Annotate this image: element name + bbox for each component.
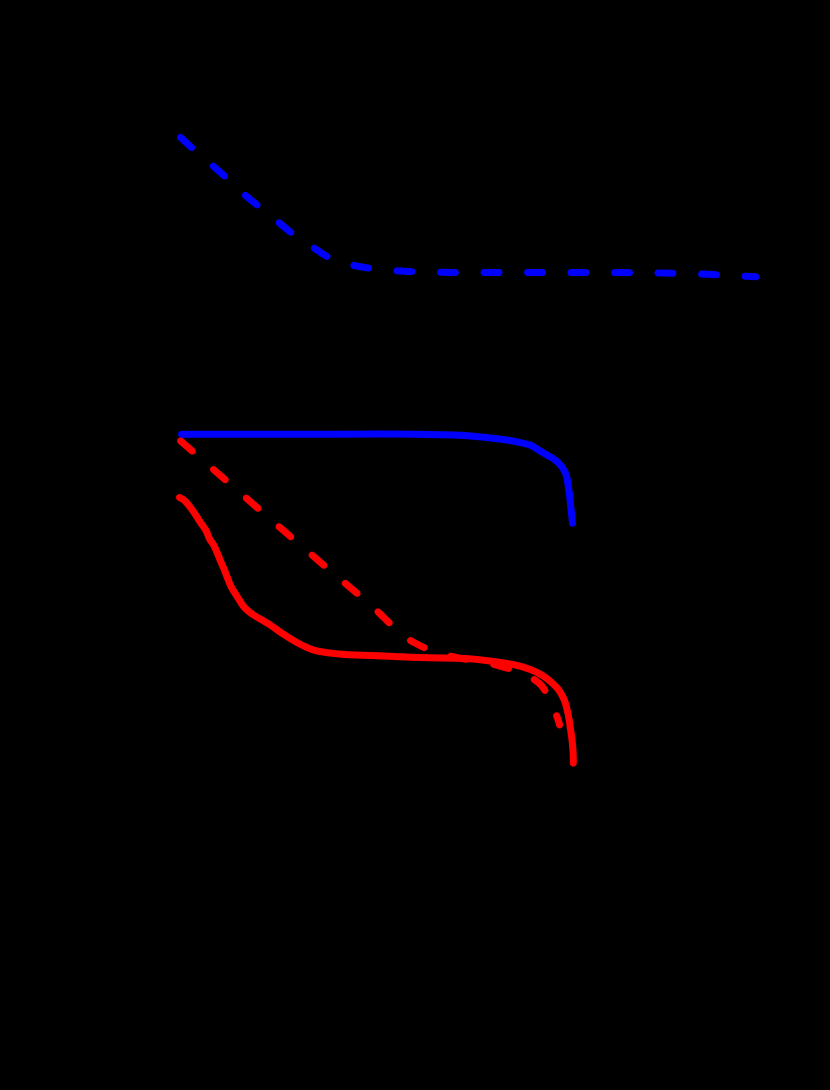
red dashed curve xyxy=(178,439,560,725)
blue dashed curve (upper) xyxy=(178,135,756,277)
red solid curve xyxy=(180,498,574,764)
blue solid curve xyxy=(182,434,573,523)
